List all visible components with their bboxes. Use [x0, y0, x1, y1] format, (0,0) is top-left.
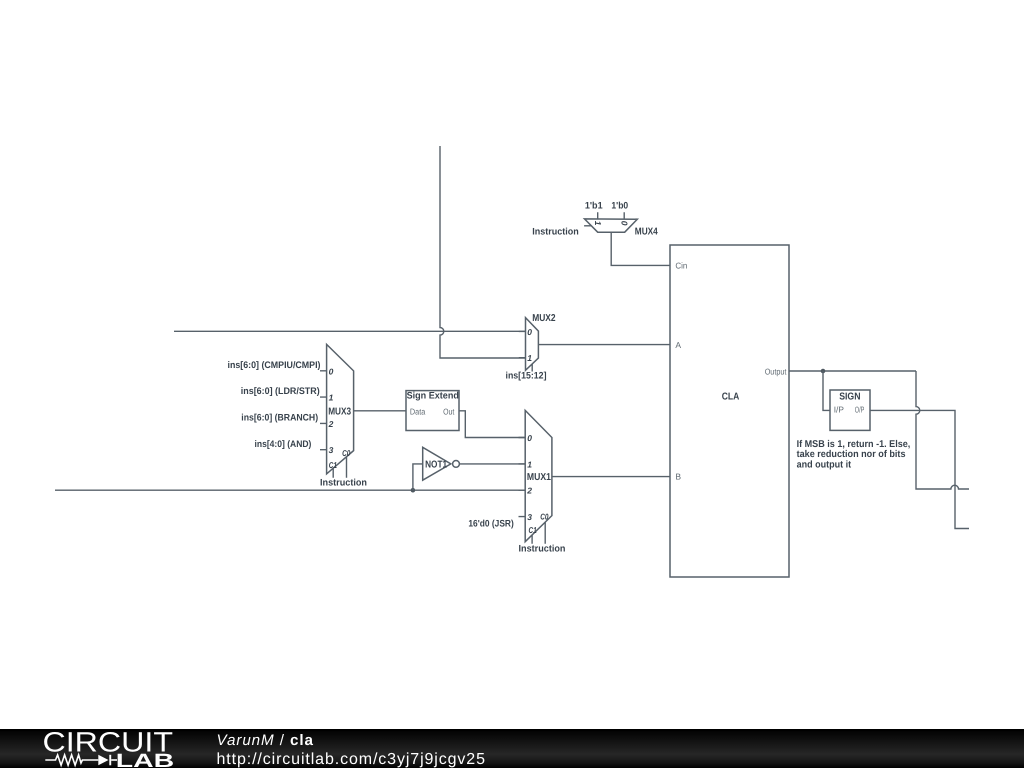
wire Output down with hop then right with hop [916, 371, 969, 489]
svg-text:I/P: I/P [834, 405, 845, 415]
wire bus into MUX1 pin 2 [55, 489, 525, 491]
svg-text:and output it: and output it [797, 459, 852, 470]
svg-text:Out: Out [443, 407, 455, 417]
svg-text:MUX4: MUX4 [635, 227, 658, 238]
svg-text:C1: C1 [529, 525, 537, 535]
MUX4 channel labels (rotated) [593, 221, 629, 226]
svg-text:C0: C0 [540, 512, 548, 522]
MUX3 channel and select pin labels [328, 366, 351, 470]
svg-text:3: 3 [527, 512, 532, 522]
block CLA [670, 245, 789, 577]
svg-text:3: 3 [329, 445, 334, 455]
svg-text:MUX2: MUX2 [532, 313, 556, 324]
svg-text:2: 2 [328, 419, 334, 429]
wire MUX3 output to Sign Extend Data [354, 410, 406, 412]
svg-text:0: 0 [527, 433, 532, 443]
logo resistor [45, 755, 98, 765]
logo diode [98, 755, 108, 766]
svg-text:1: 1 [527, 353, 532, 363]
junction on Output run [821, 369, 826, 374]
note text about SIGN behaviour [797, 439, 911, 471]
mux MUX3 body, input pins 0-3, select pins C0/C1 [320, 344, 354, 477]
wire Output tap to SIGN I/P [823, 371, 830, 410]
svg-text:Instruction: Instruction [519, 543, 566, 554]
junction on bus at NOT1 input tap [411, 488, 416, 493]
svg-text:Instruction: Instruction [532, 226, 579, 237]
svg-text:ins[6:0] (CMPIU/CMPI): ins[6:0] (CMPIU/CMPI) [228, 360, 321, 371]
svg-text:A: A [675, 340, 681, 350]
svg-text:O/P: O/P [855, 405, 865, 415]
wire NOT1 input tap [413, 464, 423, 490]
svg-text:VarunM / cla: VarunM / cla [217, 732, 314, 749]
svg-text:1: 1 [593, 221, 603, 226]
svg-text:B: B [675, 471, 681, 481]
wire SIGN O/P down and right [870, 410, 969, 528]
svg-text:0: 0 [329, 366, 334, 376]
wire MUX2 output to CLA A [538, 344, 670, 346]
svg-text:1: 1 [527, 459, 532, 469]
svg-text:http://circuitlab.com/c3yj7j9j: http://circuitlab.com/c3yj7j9jcgv25 [217, 751, 486, 768]
svg-text:0: 0 [527, 327, 532, 337]
wire CLA Output run [789, 370, 916, 372]
gate NOT1 [423, 447, 460, 480]
wire vertical drop with hop over bus [440, 146, 526, 358]
svg-text:C0: C0 [342, 448, 350, 458]
svg-text:0: 0 [620, 221, 630, 226]
svg-text:1'b1: 1'b1 [585, 201, 603, 212]
MUX1 channel and select pin labels [526, 433, 548, 535]
mux MUX4 body, top input pins, select pin [584, 212, 637, 232]
svg-text:Data: Data [410, 407, 426, 417]
svg-text:NOT1: NOT1 [425, 459, 447, 470]
block Sign Extend [406, 391, 459, 431]
svg-text:ins[6:0] (LDR/STR): ins[6:0] (LDR/STR) [241, 386, 320, 397]
svg-text:1'b0: 1'b0 [611, 201, 628, 212]
svg-text:Output: Output [765, 366, 787, 376]
MUX2 channel labels [527, 327, 532, 363]
svg-text:Sign Extend: Sign Extend [407, 390, 459, 401]
footer bar [0, 729, 1024, 768]
svg-text:SIGN: SIGN [839, 391, 860, 402]
wire MUX4 output to CLA Cin [611, 232, 670, 265]
svg-text:1: 1 [329, 393, 334, 403]
svg-text:ins[15:12]: ins[15:12] [506, 371, 547, 382]
wire bus into MUX2 pin 0 [174, 330, 526, 332]
svg-text:MUX3: MUX3 [328, 406, 351, 417]
svg-text:CLA: CLA [722, 391, 740, 402]
svg-text:C1: C1 [329, 460, 337, 470]
svg-text:16'd0 (JSR): 16'd0 (JSR) [468, 518, 513, 529]
block SIGN [830, 390, 870, 430]
svg-text:2: 2 [526, 486, 532, 496]
svg-text:LAB: LAB [116, 751, 174, 768]
svg-text:Cin: Cin [675, 261, 687, 271]
wire NOT1 output to MUX1 pin 1 [459, 463, 525, 465]
svg-text:MUX1: MUX1 [527, 472, 551, 483]
mux MUX2 body, input pins 0-1, select pin [519, 318, 539, 372]
wire Sign Extend Out to MUX1 pin 0 [459, 411, 525, 438]
svg-text:ins[6:0] (BRANCH): ins[6:0] (BRANCH) [241, 413, 318, 424]
mux MUX1 body, input pins 0-3, select pins C0/C1 [519, 410, 552, 543]
svg-text:ins[4:0] (AND): ins[4:0] (AND) [255, 439, 312, 450]
svg-text:Instruction: Instruction [320, 477, 367, 488]
wire MUX1 output to CLA B [552, 476, 670, 478]
